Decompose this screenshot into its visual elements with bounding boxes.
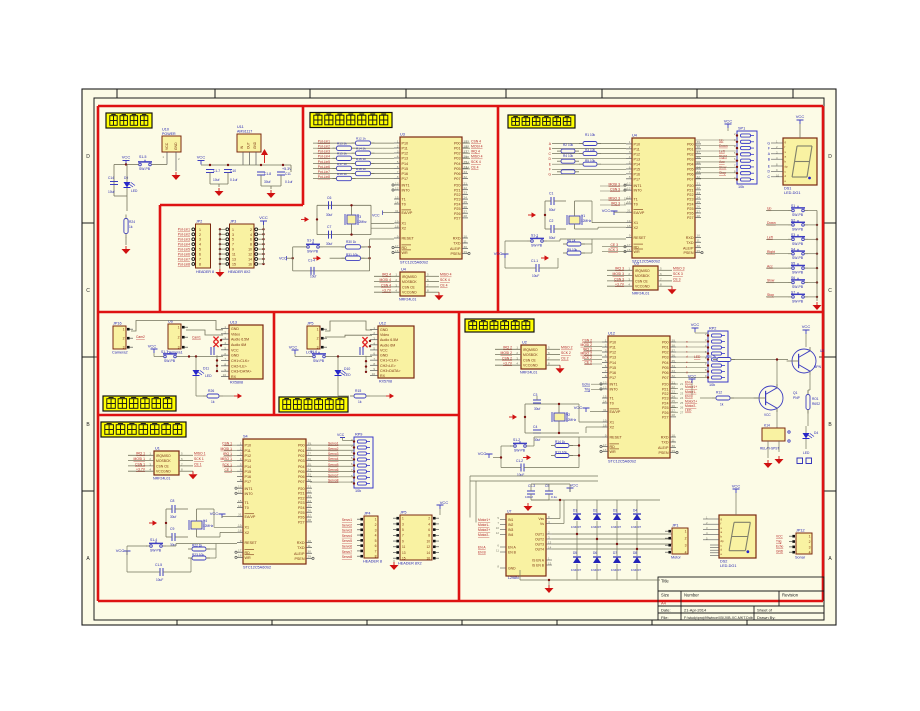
svg-text:CH1<CLK>: CH1<CLK>: [231, 359, 249, 363]
svg-text:SW-PB: SW-PB: [313, 359, 325, 363]
svg-text:S4: S4: [243, 435, 248, 439]
svg-text:VCC: VCC: [380, 348, 388, 352]
svg-text:Motor2-: Motor2-: [685, 404, 696, 408]
svg-text:NPN: NPN: [814, 365, 822, 369]
svg-text:IRQ 2: IRQ 2: [503, 346, 512, 350]
svg-text:1N4007: 1N4007: [631, 525, 642, 529]
svg-text:Right: Right: [767, 250, 775, 254]
svg-text:10uf: 10uf: [310, 275, 316, 279]
svg-text:MOSBCK: MOSBCK: [156, 459, 171, 463]
svg-text:G: G: [767, 141, 770, 145]
svg-text:8: 8: [240, 478, 242, 482]
svg-text:JP3: JP3: [230, 220, 236, 224]
svg-text:21: 21: [464, 181, 468, 185]
svg-text:14: 14: [426, 551, 430, 555]
svg-text:EN B: EN B: [685, 395, 693, 399]
svg-text:5: 5: [402, 528, 404, 532]
svg-text:IN3: IN3: [508, 528, 513, 532]
svg-text:24: 24: [672, 394, 676, 398]
svg-text:15: 15: [603, 394, 607, 398]
svg-text:2: 2: [629, 145, 631, 149]
svg-text:T1: T1: [634, 198, 638, 202]
svg-text:Revision: Revision: [782, 593, 799, 598]
svg-text:SCK 3: SCK 3: [673, 272, 683, 276]
svg-text:10k: 10k: [355, 489, 361, 493]
svg-text:JP5: JP5: [307, 322, 314, 326]
svg-text:CSN CE: CSN CE: [156, 464, 170, 468]
svg-text:T1: T1: [610, 397, 614, 401]
svg-text:RXD: RXD: [297, 541, 305, 545]
svg-text:D10: D10: [344, 367, 350, 371]
svg-text:SP1: SP1: [738, 127, 745, 131]
svg-text:DS2: DS2: [720, 560, 727, 564]
svg-text:TXD: TXD: [686, 241, 694, 245]
svg-text:21-Apr-2014: 21-Apr-2014: [684, 608, 707, 613]
svg-text:GND: GND: [508, 566, 516, 570]
svg-text:P06: P06: [687, 173, 694, 177]
svg-text:33: 33: [672, 369, 676, 373]
svg-text:X1: X1: [402, 222, 407, 226]
svg-text:R1 10k: R1 10k: [585, 133, 596, 137]
svg-text:OUT4: OUT4: [535, 547, 544, 551]
svg-text:3: 3: [240, 452, 242, 456]
svg-text:VCC: VCC: [148, 344, 157, 349]
svg-text:18: 18: [238, 529, 242, 533]
svg-text:12: 12: [426, 545, 430, 549]
svg-text:VCC: VCC: [259, 215, 268, 220]
svg-text:U12: U12: [608, 332, 615, 336]
svg-text:9: 9: [629, 234, 631, 238]
svg-text:D: D: [828, 154, 832, 160]
svg-text:LED: LED: [344, 373, 351, 377]
svg-text:13: 13: [603, 380, 607, 384]
svg-text:Servo3: Servo3: [342, 529, 352, 533]
svg-text:R15: R15: [355, 389, 361, 393]
svg-text:NRF24L01: NRF24L01: [520, 371, 537, 375]
svg-text:10uf: 10uf: [108, 190, 115, 194]
svg-text:Servo8: Servo8: [342, 555, 352, 559]
svg-text:9: 9: [605, 433, 607, 437]
svg-text:6: 6: [199, 253, 201, 257]
svg-text:18: 18: [627, 224, 631, 228]
svg-text:8: 8: [605, 374, 607, 378]
svg-text:SW-PB: SW-PB: [792, 299, 804, 303]
svg-text:File:: File:: [661, 615, 669, 620]
svg-text:P04: P04: [687, 163, 694, 167]
svg-text:SW-PB: SW-PB: [139, 167, 151, 171]
svg-text:D8: D8: [633, 551, 637, 555]
svg-text:Audio 6.5M: Audio 6.5M: [380, 338, 398, 342]
svg-text:Motor1+: Motor1+: [685, 385, 697, 389]
svg-text:2: 2: [240, 447, 242, 451]
svg-text:4: 4: [685, 551, 687, 555]
svg-text:NRF24L01: NRF24L01: [632, 292, 649, 296]
svg-text:6: 6: [397, 165, 399, 169]
svg-text:IRQMISO: IRQMISO: [635, 269, 650, 273]
svg-text:GND: GND: [776, 550, 784, 554]
svg-text:PSEN: PSEN: [294, 557, 304, 561]
svg-text:LED-DG1: LED-DG1: [784, 191, 800, 195]
svg-text:MISO 4: MISO 4: [471, 155, 483, 159]
svg-text:P22: P22: [454, 193, 461, 197]
svg-text:25: 25: [680, 401, 684, 405]
svg-text:2: 2: [123, 337, 125, 341]
svg-text:C9: C9: [170, 527, 174, 531]
svg-text:P13: P13: [634, 157, 641, 161]
svg-text:Cam1: Cam1: [192, 336, 201, 340]
svg-text:EA/VP: EA/VP: [402, 211, 413, 215]
svg-text:LED-DG1: LED-DG1: [720, 564, 736, 568]
svg-text:+3.7V: +3.7V: [382, 289, 392, 293]
svg-text:C11: C11: [285, 172, 291, 176]
svg-text:1N4007: 1N4007: [571, 568, 582, 572]
svg-text:75: 75: [466, 155, 470, 159]
svg-text:VCC: VCC: [116, 548, 125, 553]
svg-text:3: 3: [199, 238, 201, 242]
svg-text:Pot-Lin4: Pot-Lin4: [178, 243, 190, 247]
svg-text:P00: P00: [662, 341, 669, 345]
svg-text:4: 4: [629, 155, 631, 159]
svg-text:12MHz: 12MHz: [581, 219, 592, 223]
svg-text:HEADER 8X2: HEADER 8X2: [398, 562, 422, 566]
svg-text:IRQ 4: IRQ 4: [471, 150, 480, 154]
svg-text:INT1: INT1: [245, 487, 253, 491]
svg-text:77: 77: [466, 150, 470, 154]
svg-text:7: 7: [605, 369, 607, 373]
svg-text:VCC: VCC: [165, 142, 169, 150]
svg-text:R4 10k: R4 10k: [563, 154, 574, 158]
svg-text:17: 17: [238, 549, 242, 553]
svg-text:CE 4: CE 4: [471, 165, 479, 169]
svg-text:10: 10: [697, 234, 701, 238]
svg-text:R23 10k: R23 10k: [192, 553, 204, 557]
svg-text:X2: X2: [402, 227, 407, 231]
svg-text:15: 15: [548, 562, 552, 566]
svg-text:STC12C5A60S2: STC12C5A60S2: [243, 566, 271, 570]
svg-text:R18 1k: R18 1k: [356, 167, 366, 171]
svg-text:16: 16: [238, 554, 242, 558]
svg-text:S1-3: S1-3: [307, 239, 314, 243]
svg-text:P17: P17: [402, 177, 409, 181]
svg-text:Sonar: Sonar: [795, 556, 806, 560]
svg-text:1: 1: [685, 530, 687, 534]
svg-text:RX5708: RX5708: [379, 380, 392, 384]
svg-text:19: 19: [627, 219, 631, 223]
svg-text:P01: P01: [662, 346, 669, 350]
svg-text:30uf: 30uf: [534, 407, 540, 411]
svg-text:25: 25: [308, 504, 312, 508]
svg-text:34: 34: [672, 364, 676, 368]
svg-text:P23: P23: [662, 397, 669, 401]
svg-text:CH2<LE>: CH2<LE>: [231, 364, 247, 368]
svg-text:T0: T0: [610, 402, 614, 406]
svg-text:U1: U1: [155, 447, 160, 451]
svg-text:MOSI 4: MOSI 4: [471, 145, 483, 149]
svg-text:SW-PB: SW-PB: [150, 549, 162, 553]
svg-text:37: 37: [672, 348, 676, 352]
svg-text:34: 34: [308, 468, 312, 472]
svg-text:P23: P23: [454, 198, 461, 202]
svg-text:29: 29: [697, 249, 701, 253]
svg-text:Motor2-: Motor2-: [478, 533, 489, 537]
svg-text:P02: P02: [454, 152, 461, 156]
svg-text:10: 10: [223, 373, 227, 377]
svg-text:10uf: 10uf: [213, 178, 220, 182]
svg-text:28: 28: [308, 518, 312, 522]
svg-text:P11: P11: [245, 449, 251, 453]
svg-text:8: 8: [199, 262, 201, 266]
svg-text:2: 2: [428, 517, 430, 521]
svg-text:Pot-Lin5: Pot-Lin5: [178, 248, 190, 252]
svg-text:P20: P20: [687, 184, 694, 188]
svg-text:9: 9: [232, 248, 234, 252]
svg-text:MOSI 4: MOSI 4: [380, 278, 392, 282]
svg-text:P16: P16: [634, 173, 641, 177]
svg-text:P10: P10: [610, 341, 617, 345]
svg-text:IN4: IN4: [508, 533, 513, 537]
svg-text:Stop: Stop: [767, 293, 774, 297]
svg-text:RXD: RXD: [453, 237, 461, 241]
svg-text:MOSBCK: MOSBCK: [635, 274, 650, 278]
svg-text:16: 16: [627, 248, 631, 252]
svg-text:CH2<LE>: CH2<LE>: [380, 364, 396, 368]
svg-text:1N4007: 1N4007: [611, 568, 622, 572]
svg-text:RD: RD: [634, 245, 640, 249]
svg-text:1k: 1k: [211, 400, 215, 404]
svg-text:T0: T0: [245, 506, 249, 510]
svg-text:30: 30: [464, 245, 468, 249]
svg-text:CSN CE: CSN CE: [402, 285, 416, 289]
svg-text:30uf: 30uf: [264, 180, 271, 184]
svg-text:Slow: Slow: [767, 279, 775, 283]
svg-text:P14: P14: [610, 361, 617, 365]
svg-text:39: 39: [697, 140, 701, 144]
svg-text:CE 3: CE 3: [673, 277, 681, 281]
svg-text:P07: P07: [454, 177, 461, 181]
svg-text:IRQMISO: IRQMISO: [402, 275, 417, 279]
svg-text:P24: P24: [662, 401, 669, 405]
svg-text:R19 1k: R19 1k: [337, 172, 347, 176]
svg-text:IS EN A: IS EN A: [532, 558, 545, 562]
svg-text:15: 15: [232, 262, 236, 266]
svg-text:P24: P24: [454, 202, 461, 206]
svg-text:T1: T1: [402, 198, 406, 202]
svg-text:P02: P02: [298, 454, 305, 458]
svg-text:TXD: TXD: [297, 546, 305, 550]
svg-text:1k: 1k: [358, 400, 362, 404]
svg-text:9: 9: [397, 234, 399, 238]
svg-text:16: 16: [426, 557, 430, 561]
svg-text:CH3<DATA>: CH3<DATA>: [231, 370, 251, 374]
svg-text:1N4007: 1N4007: [591, 525, 602, 529]
svg-text:VCCGND: VCCGND: [635, 285, 650, 289]
svg-text:R6S2: R6S2: [812, 402, 820, 406]
svg-text:Motor1-: Motor1-: [478, 523, 489, 527]
svg-text:11: 11: [464, 239, 467, 243]
svg-text:2: 2: [809, 540, 811, 544]
svg-text:P16: P16: [402, 172, 409, 176]
svg-text:22: 22: [672, 385, 676, 389]
svg-text:P21: P21: [454, 188, 461, 192]
svg-text:1: 1: [240, 441, 242, 445]
svg-text:P13: P13: [402, 157, 409, 161]
svg-text:PSEN: PSEN: [658, 451, 668, 455]
svg-text:C2: C2: [549, 219, 553, 223]
svg-text:3: 3: [232, 233, 234, 237]
svg-text:R30 1k: R30 1k: [346, 240, 357, 244]
svg-text:28: 28: [672, 413, 676, 417]
svg-text:6: 6: [375, 544, 377, 548]
svg-text:P10: P10: [634, 143, 641, 147]
svg-text:1: 1: [397, 139, 399, 143]
svg-text:VCC: VCC: [440, 500, 449, 505]
svg-text:1N4007: 1N4007: [631, 568, 642, 572]
svg-text:D4: D4: [814, 431, 818, 435]
svg-text:HEADER 8: HEADER 8: [363, 560, 382, 564]
svg-text:D5: D5: [573, 551, 577, 555]
svg-text:31: 31: [627, 209, 631, 213]
svg-text:VCC: VCC: [372, 213, 380, 217]
svg-text:13: 13: [548, 541, 552, 545]
svg-text:29: 29: [464, 250, 468, 254]
svg-text:Y4: Y4: [203, 519, 207, 523]
svg-text:P12: P12: [610, 351, 617, 355]
svg-text:WR: WR: [634, 250, 640, 254]
svg-text:Pot-Lin7: Pot-Lin7: [178, 257, 190, 261]
svg-text:Y1: Y1: [581, 214, 585, 218]
svg-text:SW-PB: SW-PB: [307, 249, 319, 253]
svg-text:D4: D4: [633, 509, 637, 513]
svg-text:P15: P15: [245, 470, 252, 474]
svg-text:33: 33: [697, 170, 701, 174]
svg-text:24: 24: [697, 195, 701, 199]
svg-text:U3: U3: [634, 262, 639, 266]
svg-text:X1: X1: [634, 221, 639, 225]
svg-text:SCK 1: SCK 1: [194, 457, 204, 461]
svg-text:R20 2k: R20 2k: [706, 355, 717, 359]
svg-text:3: 3: [402, 522, 404, 526]
svg-text:D: D: [86, 154, 90, 160]
svg-text:VCC: VCC: [724, 119, 733, 124]
svg-text:31: 31: [603, 408, 607, 412]
svg-text:PSEN: PSEN: [683, 251, 693, 255]
svg-text:14: 14: [238, 504, 242, 508]
svg-text:14: 14: [395, 200, 399, 204]
svg-text:3: 3: [629, 150, 631, 154]
svg-text:30uf: 30uf: [170, 515, 176, 519]
svg-text:18: 18: [603, 423, 607, 427]
svg-text:10: 10: [496, 526, 500, 530]
svg-text:Vss: Vss: [538, 517, 544, 521]
svg-text:NRF24L01: NRF24L01: [153, 477, 170, 481]
svg-text:36: 36: [697, 155, 701, 159]
svg-text:R12: R12: [716, 391, 722, 395]
svg-text:SW-PB: SW-PB: [531, 244, 543, 248]
svg-text:1: 1: [629, 140, 631, 144]
svg-text:14: 14: [548, 546, 552, 550]
svg-text:P06: P06: [662, 371, 669, 375]
svg-text:32: 32: [672, 374, 676, 378]
svg-text:9: 9: [240, 539, 242, 543]
svg-text:26: 26: [697, 205, 701, 209]
svg-text:P22: P22: [687, 193, 694, 197]
svg-text:IRQMISO: IRQMISO: [523, 348, 538, 352]
svg-text:Audio 6M: Audio 6M: [231, 343, 246, 347]
svg-text:INT0: INT0: [402, 189, 410, 193]
svg-text:1: 1: [123, 328, 125, 332]
svg-text:24: 24: [464, 195, 468, 199]
svg-text:4: 4: [605, 353, 607, 357]
svg-text:1k: 1k: [720, 403, 724, 407]
svg-text:G: G: [548, 173, 551, 177]
svg-text:F: F: [768, 147, 770, 151]
svg-text:Motor: Motor: [671, 556, 681, 560]
svg-text:EN A: EN A: [478, 546, 486, 550]
svg-text:26: 26: [672, 404, 676, 408]
svg-text:3: 3: [178, 346, 180, 350]
svg-text:GND: GND: [253, 141, 257, 149]
svg-text:1: 1: [402, 517, 404, 521]
svg-text:P27: P27: [298, 520, 305, 524]
svg-text:LED: LED: [694, 355, 701, 359]
svg-text:+3.7V: +3.7V: [503, 362, 513, 366]
svg-text:RESET: RESET: [245, 541, 258, 545]
svg-text:19: 19: [238, 523, 242, 527]
svg-text:32: 32: [464, 175, 468, 179]
svg-text:SW-PB: SW-PB: [792, 285, 804, 289]
svg-text:P13: P13: [245, 459, 252, 463]
svg-text:100uf: 100uf: [525, 495, 533, 499]
svg-text:P21: P21: [662, 387, 669, 391]
svg-text:13: 13: [627, 182, 631, 186]
svg-text:12MHz: 12MHz: [566, 418, 577, 422]
svg-text:SCK 4: SCK 4: [440, 278, 450, 282]
svg-text:12: 12: [395, 186, 399, 190]
svg-text:P22: P22: [298, 496, 305, 500]
svg-text:P04: P04: [662, 361, 669, 365]
svg-text:2: 2: [199, 233, 201, 237]
svg-text:EA/VP: EA/VP: [610, 410, 621, 414]
svg-text:HEADER 8X2: HEADER 8X2: [228, 270, 250, 274]
svg-text:X1: X1: [610, 421, 615, 425]
svg-text:Date:: Date:: [661, 608, 671, 613]
svg-text:3: 3: [375, 528, 377, 532]
svg-text:CE 2: CE 2: [561, 356, 569, 360]
svg-text:GND: GND: [380, 354, 388, 358]
svg-text:17: 17: [627, 243, 631, 247]
svg-text:10: 10: [308, 539, 312, 543]
svg-text:1: 1: [199, 228, 201, 232]
svg-text:MOSI 1: MOSI 1: [134, 457, 146, 461]
svg-text:Down: Down: [767, 221, 776, 225]
svg-text:10: 10: [248, 248, 252, 252]
svg-text:P14: P14: [634, 163, 641, 167]
svg-text:Acc: Acc: [767, 264, 773, 268]
svg-text:VCC: VCC: [776, 535, 783, 539]
svg-text:P20: P20: [298, 487, 305, 491]
svg-text:RXD: RXD: [686, 236, 694, 240]
svg-text:4: 4: [240, 457, 242, 461]
svg-text:25: 25: [464, 200, 468, 204]
svg-text:P01: P01: [298, 449, 305, 453]
svg-text:P25: P25: [687, 207, 694, 211]
svg-text:11: 11: [232, 253, 236, 257]
svg-text:4: 4: [397, 154, 399, 158]
svg-text:10: 10: [464, 234, 468, 238]
svg-text:P16: P16: [610, 371, 617, 375]
svg-text:NRF24L01: NRF24L01: [399, 298, 416, 302]
svg-text:Video: Video: [380, 333, 389, 337]
